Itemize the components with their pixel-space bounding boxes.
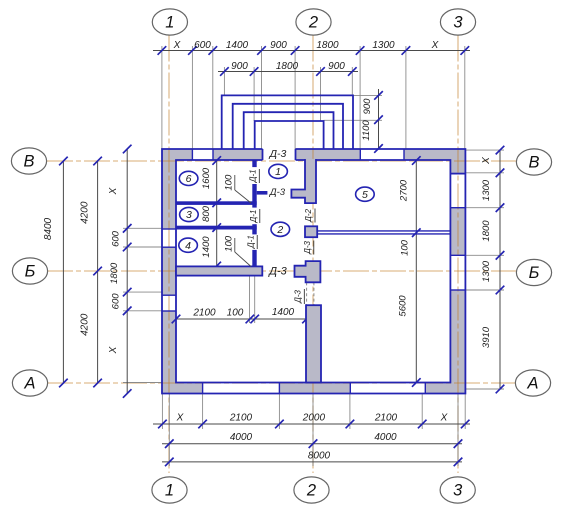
- ticks right chain: [496, 146, 505, 155]
- svg-text:600: 600: [111, 230, 122, 247]
- svg-text:X: X: [440, 413, 448, 424]
- ticks rooms dim: [212, 156, 221, 165]
- dim line bottom row1: [153, 423, 470, 425]
- svg-text:1100: 1100: [361, 120, 372, 141]
- svg-text:1: 1: [165, 482, 174, 500]
- svg-text:2100: 2100: [229, 413, 253, 424]
- axis circle 1 top: [152, 9, 187, 35]
- axis circle Б left: [12, 258, 47, 284]
- svg-text:5: 5: [362, 189, 368, 201]
- wall band corridor bottom: [176, 266, 262, 275]
- room circle 2: [271, 222, 290, 236]
- leader room4 100: [234, 238, 236, 252]
- svg-text:6: 6: [186, 173, 192, 185]
- partition rooms seg 4: [252, 250, 256, 267]
- pier entrance with stub: [291, 159, 316, 203]
- svg-text:1800: 1800: [481, 220, 492, 242]
- axis line А: [47, 382, 516, 384]
- svg-text:1300: 1300: [372, 40, 395, 51]
- dim line top row1: [153, 50, 470, 52]
- svg-text:900: 900: [231, 61, 248, 72]
- svg-text:4: 4: [185, 240, 191, 252]
- axis circle 2 bottom: [294, 477, 329, 503]
- ticks room5 dim: [412, 156, 421, 165]
- room circle 5: [356, 187, 375, 201]
- ticks top row2: [220, 67, 229, 76]
- partition rooms 3-4: [176, 226, 257, 230]
- svg-text:1600: 1600: [201, 167, 212, 189]
- ticks lower room dim: [172, 315, 181, 324]
- wall top-right corner pier: [450, 149, 465, 174]
- svg-text:900: 900: [362, 98, 373, 115]
- svg-text:900: 900: [328, 61, 345, 72]
- partition rooms seg 2: [252, 184, 256, 208]
- wall right mid pier: [450, 208, 465, 256]
- wall bottom segment left: [162, 383, 203, 394]
- dim line rooms 634: [216, 160, 218, 266]
- svg-text:600: 600: [111, 293, 122, 310]
- dim line left 8400: [62, 161, 64, 383]
- door stub hall: [257, 191, 268, 195]
- svg-text:3: 3: [453, 14, 463, 32]
- svg-text:4200: 4200: [80, 313, 91, 336]
- partition room5 double line: [317, 230, 450, 232]
- svg-text:100: 100: [224, 174, 235, 191]
- room circle 4: [179, 238, 198, 252]
- svg-text:2000: 2000: [302, 413, 326, 424]
- axis circle А left: [12, 370, 47, 396]
- wall inner perimeter: [176, 160, 450, 383]
- entrance door caps: [262, 149, 264, 160]
- axis line 1: [168, 36, 170, 474]
- partition rooms seg top: [252, 160, 256, 167]
- ticks bottom row2: [165, 439, 174, 448]
- extension lines left: [123, 227, 162, 229]
- axis circle А right: [515, 370, 550, 396]
- wall top segment mid: [213, 149, 263, 160]
- svg-text:2: 2: [306, 482, 316, 500]
- porch outline 2: [233, 104, 343, 149]
- svg-text:1400: 1400: [272, 307, 295, 318]
- wall left upper: [162, 149, 176, 229]
- svg-text:2: 2: [308, 14, 318, 32]
- svg-text:900: 900: [270, 40, 287, 51]
- svg-text:Д-3: Д-3: [269, 148, 287, 160]
- wall bottom segment right: [425, 383, 465, 394]
- svg-text:Б: Б: [25, 263, 36, 281]
- axis circle 3 top: [440, 9, 475, 35]
- wall left middle: [162, 247, 176, 295]
- opening caps left wall: [162, 228, 176, 230]
- svg-text:4000: 4000: [230, 432, 253, 443]
- svg-text:Д-3: Д-3: [269, 187, 286, 198]
- svg-text:1300: 1300: [481, 260, 492, 282]
- porch outline 1: [222, 95, 353, 149]
- ticks bottom row3: [165, 458, 174, 467]
- svg-text:1800: 1800: [109, 262, 120, 284]
- opening caps top wall: [191, 149, 193, 160]
- svg-text:8400: 8400: [43, 217, 54, 240]
- extension lines room dims: [249, 276, 251, 323]
- svg-text:X: X: [176, 413, 184, 424]
- axis circle 3 bottom: [440, 477, 475, 503]
- svg-text:8000: 8000: [308, 450, 331, 461]
- dim line room5: [415, 160, 417, 383]
- extension lines top: [161, 46, 163, 149]
- svg-text:2100: 2100: [192, 308, 216, 319]
- svg-text:2: 2: [276, 224, 283, 236]
- wall chunk corridor bottom: [295, 261, 321, 282]
- dim line bottom row3: [162, 461, 462, 463]
- svg-text:2100: 2100: [374, 413, 398, 424]
- svg-text:Д-1: Д-1: [246, 235, 255, 249]
- axis line 2: [312, 36, 314, 474]
- svg-text:1: 1: [165, 14, 174, 32]
- svg-text:1: 1: [275, 166, 281, 178]
- wall top segment right-mid: [296, 149, 361, 160]
- room circle 6: [179, 171, 198, 185]
- top-right corner pier bottom edge: [450, 173, 465, 175]
- dim line top row2: [218, 71, 358, 73]
- svg-text:2700: 2700: [399, 179, 410, 202]
- ticks left 8400: [59, 157, 68, 166]
- ticks left chain: [123, 145, 132, 154]
- axis line В: [47, 160, 516, 162]
- svg-text:X: X: [431, 40, 439, 51]
- axis line 3: [457, 36, 459, 474]
- svg-text:X: X: [481, 157, 492, 165]
- axis circle Б right: [516, 259, 551, 285]
- svg-text:100: 100: [227, 308, 244, 319]
- svg-text:3910: 3910: [481, 326, 492, 348]
- wall bottom segment mid: [279, 383, 350, 394]
- wall top segment right: [404, 149, 465, 160]
- wall lower middle: [306, 305, 321, 382]
- svg-text:1400: 1400: [226, 40, 249, 51]
- porch outline 3: [244, 112, 334, 149]
- extension lines bottom: [161, 394, 163, 430]
- porch outline 4: [255, 121, 324, 149]
- svg-text:5600: 5600: [398, 295, 409, 317]
- svg-text:Д-3: Д-3: [267, 266, 287, 278]
- partition rooms seg 3: [252, 224, 256, 234]
- svg-text:3: 3: [453, 482, 463, 500]
- svg-text:1300: 1300: [481, 179, 492, 201]
- svg-text:В: В: [23, 153, 34, 171]
- dim line left chain: [126, 149, 128, 394]
- svg-text:600: 600: [194, 40, 211, 51]
- axis circle В right: [516, 149, 551, 175]
- axis circle В left: [11, 148, 46, 174]
- dashed door projection lines: [306, 282, 308, 304]
- wall block door Д-2: [305, 226, 317, 237]
- svg-text:X: X: [108, 346, 119, 354]
- opening caps bottom wall: [202, 383, 204, 394]
- axis circle 2 top: [296, 9, 331, 35]
- svg-text:100: 100: [224, 235, 235, 252]
- svg-text:Д-2: Д-2: [304, 208, 313, 222]
- ticks left 4200: [93, 157, 102, 166]
- svg-text:800: 800: [201, 205, 212, 222]
- ticks bottom row1: [158, 420, 167, 429]
- partition rooms 6-3: [176, 201, 257, 205]
- dim line 900/1100: [378, 89, 380, 149]
- extension lines right: [465, 149, 504, 151]
- ticks dim 900/1100: [374, 91, 383, 100]
- wall right lower: [450, 290, 465, 394]
- dim line right chain: [499, 150, 501, 389]
- wall top segment left: [162, 149, 192, 160]
- dim line lower room: [176, 318, 307, 320]
- axis line Б: [47, 270, 516, 272]
- svg-text:Д-3: Д-3: [303, 240, 312, 254]
- svg-text:X: X: [173, 40, 181, 51]
- svg-text:Д-3: Д-3: [294, 289, 303, 303]
- wall left lower: [162, 311, 176, 394]
- svg-text:Б: Б: [529, 264, 540, 282]
- svg-text:1800: 1800: [316, 40, 339, 51]
- svg-text:1800: 1800: [276, 61, 299, 72]
- svg-text:В: В: [528, 154, 539, 172]
- dim line bottom row2: [162, 443, 462, 445]
- opening caps right wall: [450, 207, 465, 209]
- axis circle 1 bottom: [152, 477, 187, 503]
- room circle 1: [269, 164, 288, 178]
- svg-text:X: X: [108, 187, 119, 195]
- svg-text:Д-1: Д-1: [249, 169, 258, 183]
- svg-text:100: 100: [400, 239, 411, 256]
- svg-text:А: А: [526, 375, 538, 393]
- svg-text:1400: 1400: [201, 236, 212, 258]
- svg-text:А: А: [23, 375, 35, 393]
- leader room6 100: [234, 175, 236, 190]
- svg-text:Д-1: Д-1: [249, 210, 258, 224]
- svg-text:4000: 4000: [374, 432, 397, 443]
- wall outer perimeter: [162, 149, 465, 394]
- room circle 3: [180, 207, 199, 221]
- svg-text:3: 3: [186, 209, 192, 221]
- svg-text:4200: 4200: [80, 201, 91, 224]
- ticks top row1: [158, 46, 167, 55]
- dim line left 4200: [97, 161, 99, 383]
- extension lines vertical-dim 900/1100: [353, 94, 382, 96]
